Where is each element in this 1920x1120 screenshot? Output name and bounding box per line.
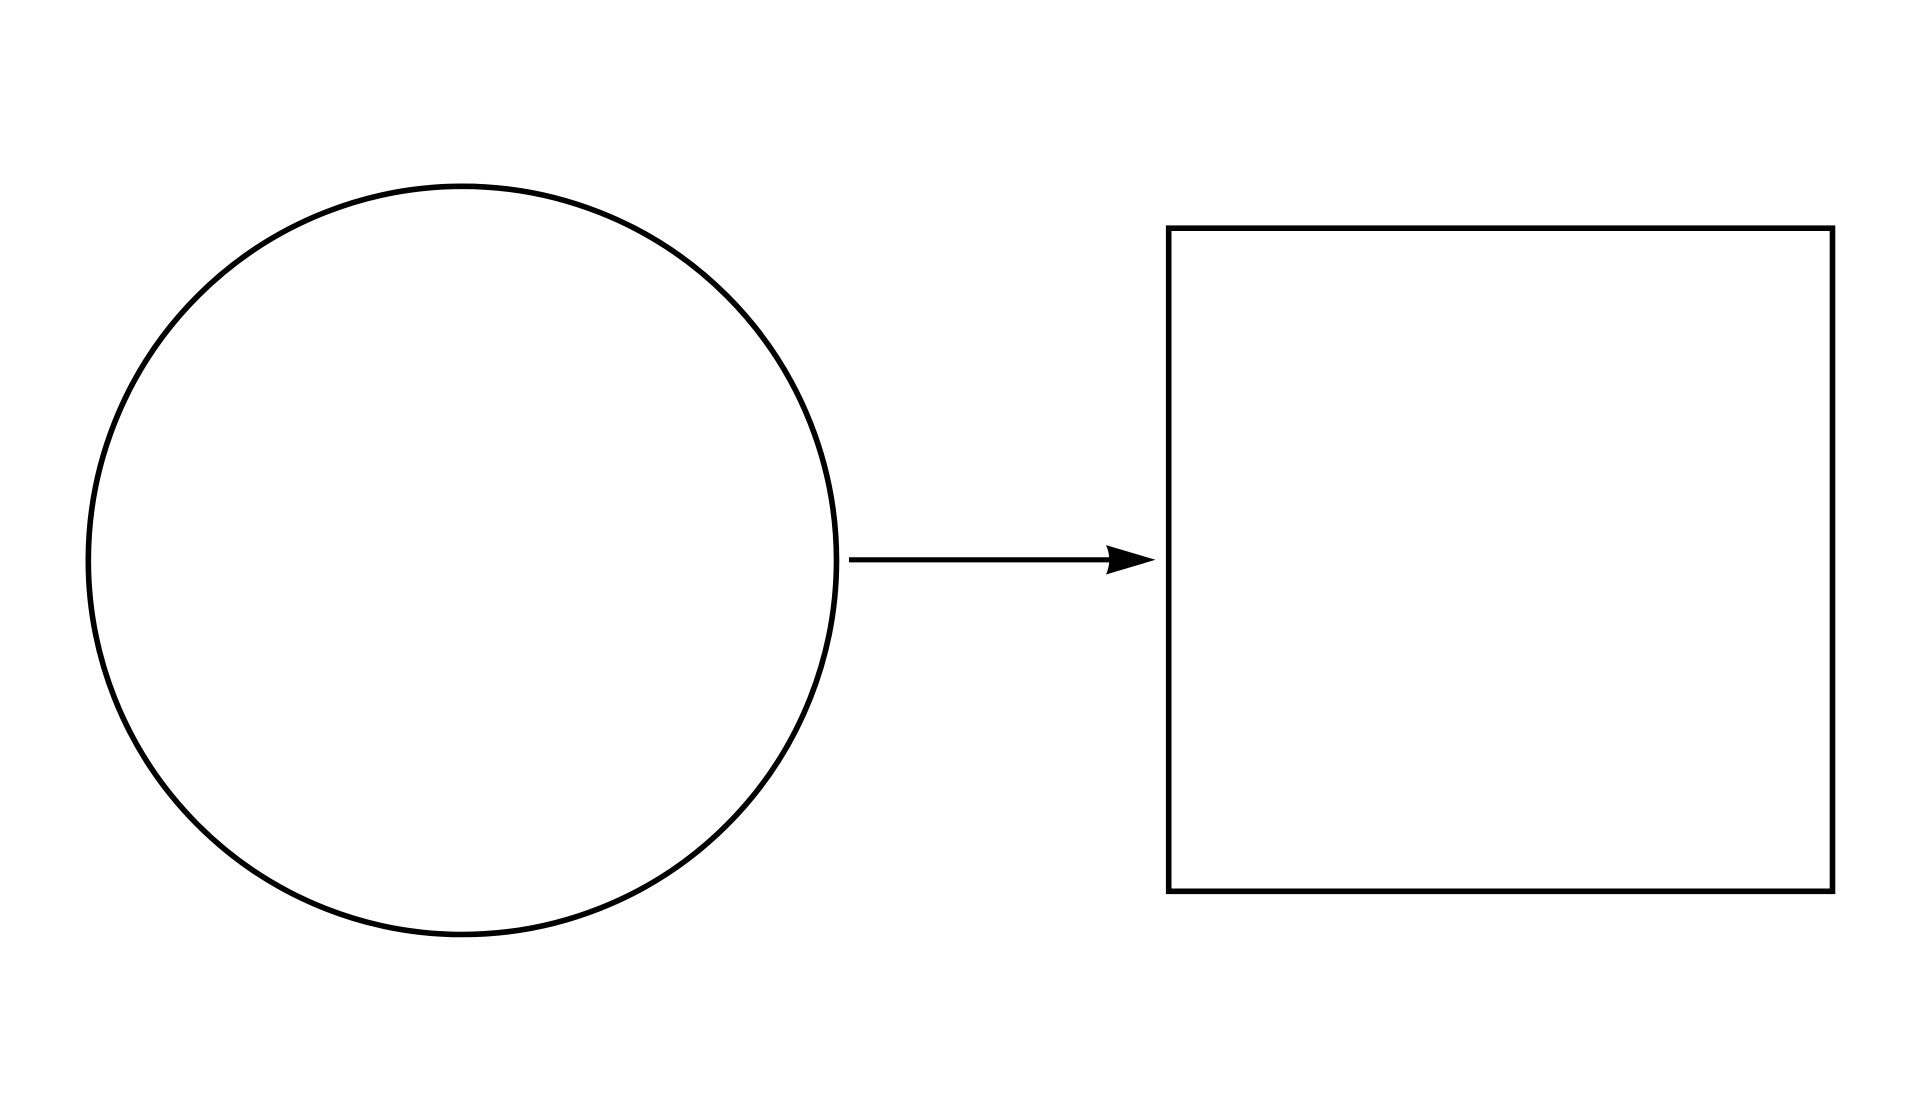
rectangle node	[1169, 228, 1833, 891]
arrowhead	[1106, 545, 1156, 574]
wire (arrow shaft)	[849, 557, 1112, 562]
circle node	[88, 186, 836, 934]
